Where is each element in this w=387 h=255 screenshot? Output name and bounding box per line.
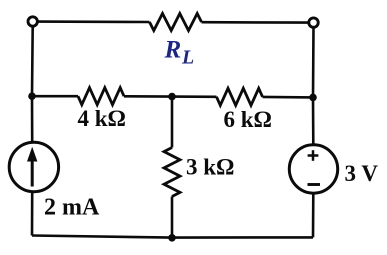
wire left vertical top bbox=[31, 26, 34, 96]
wire right vertical to voltage source bbox=[312, 97, 315, 144]
resistor 4k bbox=[78, 88, 124, 105]
wire left vertical to current source bbox=[31, 96, 34, 143]
resistor RL bbox=[150, 14, 202, 31]
svg-text:4 kΩ: 4 kΩ bbox=[78, 106, 126, 131]
voltage source V1 minus sign bbox=[308, 183, 321, 186]
wire row2 middle bbox=[124, 95, 217, 98]
svg-text:3 kΩ: 3 kΩ bbox=[186, 155, 234, 180]
terminal top-right bbox=[309, 18, 318, 27]
current source I1 arrowhead bbox=[27, 147, 37, 162]
current source I1 circle bbox=[9, 142, 58, 191]
node B junction middle bbox=[168, 93, 176, 101]
current source I1 arrow shaft bbox=[31, 158, 34, 187]
node C junction right bbox=[309, 94, 317, 102]
wire right vertical bottom bbox=[312, 193, 315, 237]
voltage source V1 circle bbox=[289, 145, 337, 193]
wire row2 right bbox=[263, 96, 314, 99]
svg-text:3 V: 3 V bbox=[345, 161, 379, 186]
node D junction bottom bbox=[168, 234, 176, 242]
wire right vertical top bbox=[312, 27, 315, 97]
svg-text:L: L bbox=[181, 47, 194, 69]
svg-text:2 mA: 2 mA bbox=[44, 195, 100, 221]
terminal top-left bbox=[28, 17, 37, 26]
node A junction left bbox=[28, 92, 36, 100]
wire top-left to RL bbox=[37, 20, 149, 23]
svg-text:6 kΩ: 6 kΩ bbox=[224, 107, 272, 132]
resistor 3k bbox=[164, 148, 180, 197]
wire bottom bbox=[32, 236, 313, 238]
svg-text:R: R bbox=[164, 37, 182, 64]
wire row2 left bbox=[32, 95, 78, 98]
wire left vertical bottom bbox=[31, 191, 34, 235]
wire RL to top-right terminal bbox=[202, 21, 309, 24]
voltage source V1 plus sign bbox=[308, 150, 319, 161]
resistor 6k bbox=[217, 88, 263, 105]
wire middle vertical bottom bbox=[171, 197, 174, 238]
wire middle vertical to 3k bbox=[171, 97, 174, 148]
